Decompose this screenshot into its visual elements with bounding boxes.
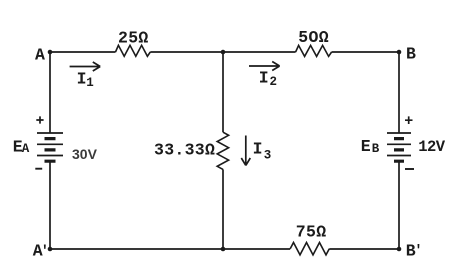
- resistor 25Ω (R between A and middle node): [116, 45, 151, 56]
- wire top: 50-ohm resistor to node B: [332, 51, 399, 53]
- wire left: node A down to battery EA: [49, 52, 51, 133]
- node B junction dot: [397, 50, 402, 55]
- svg-text:75Ω: 75Ω: [296, 222, 327, 241]
- svg-text:B: B: [372, 142, 380, 156]
- svg-text:5OΩ: 5OΩ: [298, 28, 329, 47]
- current arrow I1: [70, 62, 101, 71]
- svg-text:E: E: [361, 137, 371, 156]
- resistor 33.33Ω (middle branch): [217, 132, 228, 169]
- wire middle: 33.33-ohm resistor down to bottom junction: [222, 169, 224, 249]
- svg-text:I: I: [77, 70, 87, 89]
- svg-text:A: A: [22, 142, 30, 156]
- svg-text:3: 3: [264, 149, 272, 163]
- svg-text:25Ω: 25Ω: [118, 28, 149, 47]
- resistor 75Ω (R between bottom junction and B'): [290, 243, 329, 255]
- wire middle: middle node down to 33.33-ohm resistor: [222, 52, 224, 132]
- battery EA plates (3 cells): [37, 133, 63, 161]
- svg-text:12V: 12V: [418, 138, 446, 156]
- middle bottom junction dot: [221, 247, 226, 252]
- svg-text:I: I: [259, 69, 269, 88]
- wire bottom: node A' to 75-ohm resistor: [50, 248, 290, 250]
- wire left: battery EA down to node A': [49, 161, 51, 249]
- wire bottom: 75-ohm resistor to node B': [329, 248, 399, 250]
- wire right: node B down to battery EB: [398, 52, 400, 133]
- node A junction dot: [48, 50, 53, 55]
- current arrow I2: [249, 62, 280, 71]
- svg-text:2: 2: [270, 75, 278, 89]
- battery EB plates (3 cells): [387, 133, 411, 161]
- battery EB plus terminal mark: [405, 116, 413, 124]
- wire top: 25-ohm resistor to middle node: [150, 51, 223, 53]
- svg-text:B: B: [406, 45, 416, 64]
- svg-text:': ': [41, 244, 49, 260]
- current arrow I3: [241, 136, 250, 166]
- battery EA plus terminal mark: [36, 116, 43, 123]
- wire top: node A to 25-ohm resistor: [50, 51, 116, 53]
- svg-text:1: 1: [86, 76, 94, 90]
- wire right: battery EB down to node B': [398, 161, 400, 249]
- svg-text:33.33Ω: 33.33Ω: [154, 141, 215, 160]
- node A' junction dot: [48, 247, 53, 252]
- svg-text:30V: 30V: [72, 146, 98, 162]
- middle top junction dot: [221, 50, 226, 55]
- resistor 50Ω (R between middle node and B): [296, 45, 332, 56]
- svg-text:A: A: [35, 46, 45, 65]
- wire top: middle node to 50-ohm resistor: [223, 51, 296, 53]
- svg-text:I: I: [253, 139, 263, 158]
- svg-text:': ': [414, 243, 422, 259]
- battery EA minus terminal mark: [35, 168, 42, 170]
- battery EB minus terminal mark: [405, 168, 414, 170]
- node B' junction dot: [397, 247, 402, 252]
